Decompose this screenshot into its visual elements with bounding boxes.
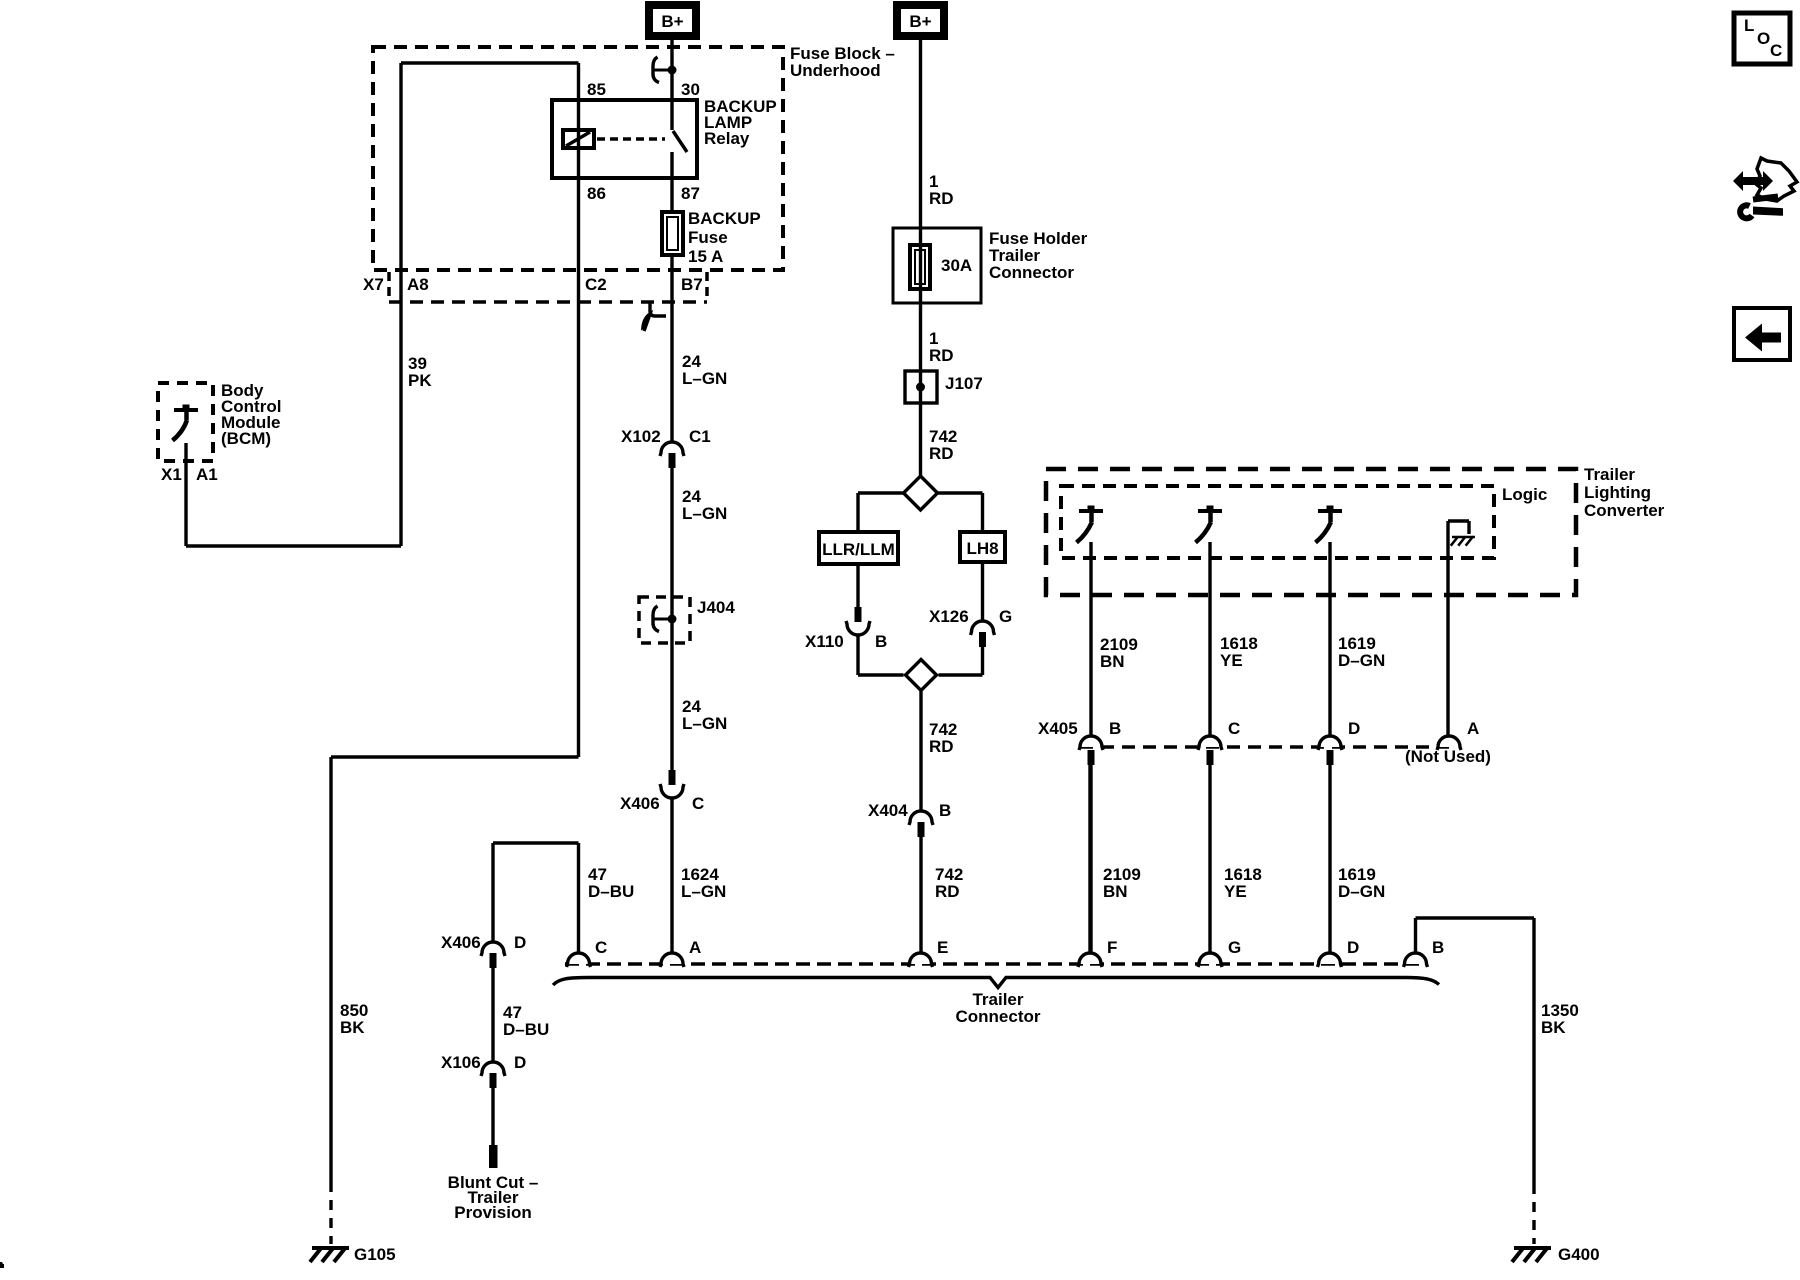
- trailer connector dashed line: [565, 962, 1420, 966]
- svg-text:(BCM): (BCM): [221, 429, 271, 448]
- svg-text:A: A: [689, 938, 701, 957]
- splice diamond lower: [906, 660, 937, 691]
- converter switch 2: [1207, 506, 1214, 510]
- svg-text:A8: A8: [407, 275, 429, 294]
- svg-text:Trailer: Trailer: [1584, 465, 1635, 484]
- svg-text:G400: G400: [1558, 1245, 1600, 1264]
- wire pin85 feed horizontal: [401, 61, 579, 64]
- edge artifact mark: [0, 1262, 4, 1268]
- svg-text:X404: X404: [868, 801, 908, 820]
- connector X406 pin D: [482, 942, 504, 953]
- trailer connector pin F: [1079, 953, 1101, 964]
- svg-text:B: B: [1109, 719, 1121, 738]
- lamp LH8 box: [960, 532, 1005, 562]
- wire LLR/LLM to X110: [856, 564, 859, 607]
- svg-text:Logic: Logic: [1502, 485, 1547, 504]
- wire to LLR/LLM: [858, 491, 904, 494]
- X405 pin D: [1319, 736, 1341, 747]
- svg-text:L–GN: L–GN: [682, 369, 727, 388]
- svg-text:E: E: [937, 938, 948, 957]
- hook at B7: [650, 303, 666, 316]
- svg-text:RD: RD: [935, 882, 960, 901]
- trailer connector pin A: [661, 953, 683, 964]
- clip tap at B+ wire: [653, 57, 659, 83]
- connector strip X7: [389, 300, 707, 304]
- svg-text:L–GN: L–GN: [681, 882, 726, 901]
- svg-text:Lighting: Lighting: [1584, 483, 1651, 502]
- svg-text:C: C: [595, 938, 607, 957]
- svg-text:D–GN: D–GN: [1338, 882, 1385, 901]
- svg-text:X102: X102: [621, 427, 661, 446]
- svg-text:G: G: [1228, 938, 1241, 957]
- svg-text:BK: BK: [1541, 1018, 1566, 1037]
- svg-text:B: B: [1432, 938, 1444, 957]
- svg-text:D–GN: D–GN: [1338, 651, 1385, 670]
- svg-text:85: 85: [587, 80, 606, 99]
- blunt cut terminal: [489, 1145, 498, 1168]
- svg-text:87: 87: [681, 184, 700, 203]
- BCM internal switch: [183, 405, 190, 409]
- svg-text:86: 86: [587, 184, 606, 203]
- splice J404: [639, 597, 690, 643]
- svg-text:Converter: Converter: [1584, 501, 1665, 520]
- svg-text:(Not Used): (Not Used): [1405, 747, 1491, 766]
- power B+ feed 1: [645, 1, 700, 40]
- svg-text:YE: YE: [1224, 882, 1247, 901]
- wire BCM A1: [184, 443, 187, 546]
- svg-text:BN: BN: [1100, 652, 1125, 671]
- X405 pin B: [1080, 736, 1102, 747]
- svg-text:RD: RD: [929, 189, 954, 208]
- svg-text:X1: X1: [161, 465, 182, 484]
- connector X405 dashed line: [1080, 745, 1449, 749]
- splice diamond upper: [904, 476, 938, 510]
- fuse BACKUP Fuse 15A: [662, 212, 683, 255]
- converter switch 1: [1088, 506, 1095, 510]
- ground G105: [312, 1246, 349, 1250]
- svg-text:X406: X406: [620, 794, 660, 813]
- connector X102 pin C1: [661, 442, 683, 453]
- splice J107: [905, 371, 937, 403]
- connector X106 pin D: [482, 1062, 504, 1073]
- svg-text:O: O: [1757, 29, 1770, 48]
- converter ground leg (pin A): [1446, 521, 1449, 736]
- wire 47 D-BU upper: [577, 843, 580, 953]
- wire 39 PK vertical: [399, 63, 402, 546]
- svg-text:Fuse: Fuse: [688, 228, 728, 247]
- icon back arrow box: [1734, 308, 1790, 360]
- brace trailer connector: [553, 978, 1439, 988]
- fuse block underhood box: [373, 47, 783, 270]
- svg-text:L–GN: L–GN: [682, 504, 727, 523]
- wire pin87: [670, 152, 673, 211]
- wire 1350 BK: [1414, 918, 1417, 953]
- svg-text:D–BU: D–BU: [503, 1020, 549, 1039]
- icon LOC box: [1734, 13, 1790, 64]
- svg-text:X406: X406: [441, 933, 481, 952]
- wire C2 to ground leg: [331, 755, 579, 758]
- svg-text:B: B: [875, 632, 887, 651]
- svg-text:LH8: LH8: [966, 539, 998, 558]
- fuse holder box: [893, 228, 981, 303]
- relay link dashed: [597, 137, 665, 140]
- svg-text:RD: RD: [929, 444, 954, 463]
- wire to LH8: [938, 491, 983, 494]
- trailer connector pin B: [1405, 953, 1427, 964]
- logic box: [1061, 486, 1494, 558]
- svg-text:B: B: [939, 801, 951, 820]
- svg-text:LLR/LLM: LLR/LLM: [822, 540, 895, 559]
- svg-text:BK: BK: [340, 1018, 365, 1037]
- svg-text:X110: X110: [805, 632, 844, 651]
- svg-text:C2: C2: [585, 275, 607, 294]
- ground G400: [1514, 1246, 1551, 1250]
- wire relay coil 85-86 vertical: [577, 63, 580, 757]
- trailer connector pin G: [1199, 953, 1221, 964]
- svg-text:Provision: Provision: [454, 1203, 531, 1222]
- svg-text:BACKUP: BACKUP: [688, 209, 761, 228]
- svg-text:L: L: [1744, 16, 1754, 35]
- svg-text:X126: X126: [929, 607, 969, 626]
- connector X406 pin C: [669, 770, 676, 785]
- svg-text:30A: 30A: [941, 256, 972, 275]
- relay switch blade: [673, 131, 687, 152]
- wire B+ to relay pin30: [670, 40, 673, 130]
- connector X126 pin G: [972, 621, 994, 632]
- svg-text:F: F: [1107, 938, 1117, 957]
- svg-text:PK: PK: [408, 371, 432, 390]
- internal ground: [1452, 536, 1475, 538]
- svg-text:D–BU: D–BU: [588, 882, 634, 901]
- svg-text:B+: B+: [661, 12, 683, 31]
- lamp LLR/LLM box: [819, 532, 898, 564]
- svg-text:C: C: [1770, 41, 1782, 60]
- svg-text:Connector: Connector: [956, 1007, 1041, 1026]
- svg-text:G: G: [999, 607, 1012, 626]
- trailer connector pin D: [1319, 953, 1341, 964]
- wire 1 RD: [919, 40, 922, 476]
- svg-text:D: D: [514, 933, 526, 952]
- relay BACKUP LAMP Relay box: [552, 100, 697, 178]
- svg-text:Connector: Connector: [989, 263, 1074, 282]
- wire fuse to B7: [670, 255, 673, 442]
- svg-text:RD: RD: [929, 737, 954, 756]
- svg-text:BN: BN: [1103, 882, 1128, 901]
- svg-text:15 A: 15 A: [688, 247, 723, 266]
- svg-text:B7: B7: [681, 275, 703, 294]
- X405 pin A not used: [1438, 736, 1460, 747]
- power B+ feed 2: [893, 1, 948, 40]
- svg-text:A: A: [1467, 719, 1479, 738]
- svg-text:J107: J107: [945, 374, 983, 393]
- svg-text:C: C: [1228, 719, 1240, 738]
- svg-text:C: C: [692, 794, 704, 813]
- svg-text:D: D: [514, 1053, 526, 1072]
- connector X110 pin B: [855, 607, 862, 622]
- svg-text:B+: B+: [909, 12, 931, 31]
- svg-text:30: 30: [681, 80, 700, 99]
- icon diagnostic arrows wrench: [1733, 171, 1773, 191]
- svg-text:Relay: Relay: [704, 129, 750, 148]
- trailer connector pin E: [910, 953, 932, 964]
- trailer lighting converter box: [1046, 469, 1576, 595]
- svg-text:G105: G105: [354, 1245, 396, 1264]
- converter switch 3: [1327, 506, 1334, 510]
- svg-text:X7: X7: [363, 275, 384, 294]
- wire LH8 to X126: [981, 562, 984, 621]
- svg-text:D: D: [1347, 938, 1359, 957]
- svg-text:X106: X106: [441, 1053, 481, 1072]
- relay coil: [563, 130, 594, 148]
- body control module box: [158, 383, 213, 461]
- X405 pin C: [1199, 736, 1221, 747]
- svg-text:RD: RD: [929, 346, 954, 365]
- trailer connector pin C: [568, 953, 590, 964]
- wire F: [1088, 765, 1091, 953]
- svg-text:YE: YE: [1220, 651, 1243, 670]
- svg-text:D: D: [1348, 719, 1360, 738]
- connector X404 pin B: [910, 811, 932, 822]
- svg-text:Underhood: Underhood: [790, 61, 881, 80]
- svg-text:L–GN: L–GN: [682, 714, 727, 733]
- svg-text:J404: J404: [697, 598, 735, 617]
- svg-text:C1: C1: [689, 427, 711, 446]
- svg-text:X405: X405: [1038, 719, 1078, 738]
- svg-text:A1: A1: [196, 465, 218, 484]
